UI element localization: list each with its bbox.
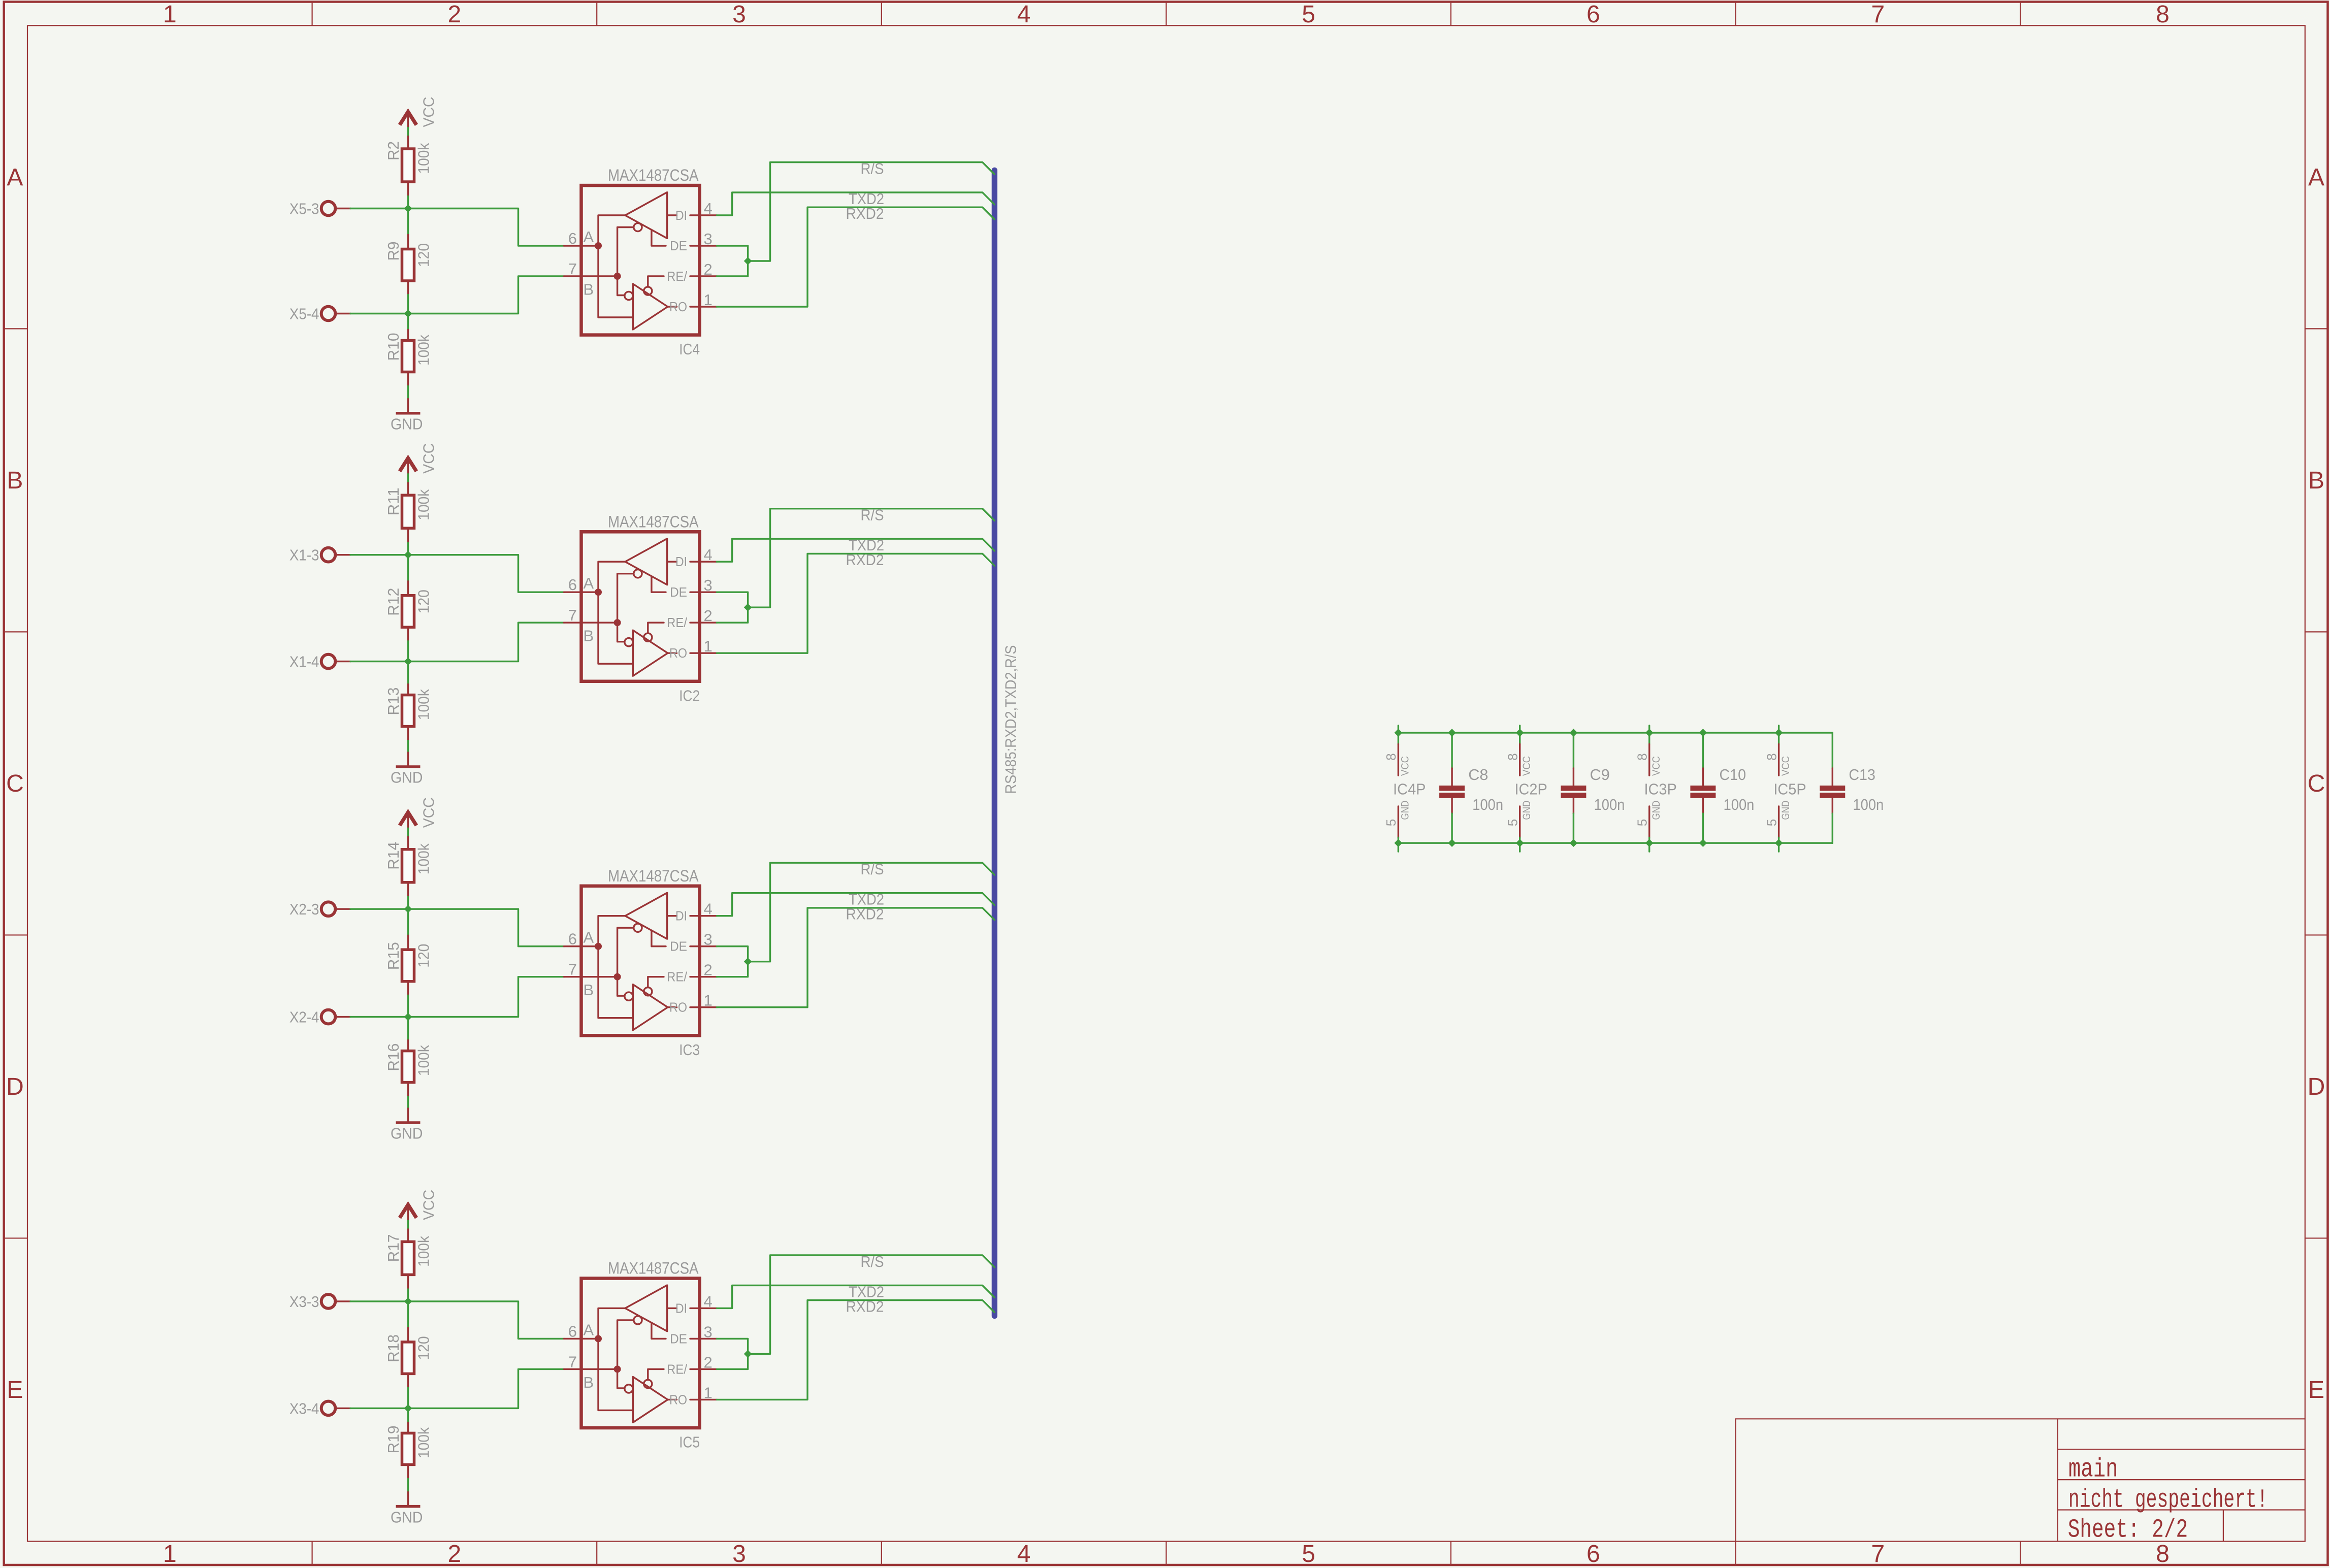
wire DE to R/S junction (717, 946, 748, 962)
wire net A from X1-3 to IC2 pin 6 (408, 555, 564, 593)
svg-text:Sheet: 2/2: Sheet: 2/2 (2068, 1515, 2188, 1545)
svg-text:5: 5 (1764, 819, 1779, 826)
svg-text:GND: GND (1400, 801, 1411, 820)
svg-text:1: 1 (163, 1, 177, 28)
IC2 inverter bubble receiver enable lower (625, 638, 633, 646)
IC3 RO stub (668, 1006, 677, 1008)
svg-text:1: 1 (163, 1541, 177, 1567)
title block divider vertical (2057, 1419, 2058, 1541)
IC5 pin 2 RE/ (667, 1353, 717, 1377)
svg-text:R17: R17 (384, 1234, 402, 1262)
svg-text:RO: RO (669, 299, 687, 314)
svg-text:100k: 100k (414, 1045, 432, 1076)
ground symbol GND below R10 (391, 399, 423, 433)
wire TXD2 from IC2 DI to bus (717, 539, 995, 562)
IC5 pin 1 RO (669, 1384, 717, 1407)
svg-text:R10: R10 (384, 333, 402, 361)
svg-text:VCC: VCC (419, 443, 437, 474)
svg-text:VCC: VCC (1400, 756, 1411, 776)
junction node A at X3-3 (405, 1298, 412, 1305)
IC2 inverter bubble driver enable (634, 570, 642, 578)
svg-text:5: 5 (1302, 1541, 1315, 1567)
svg-text:8: 8 (2156, 1, 2170, 28)
wire RE to R/S junction (717, 607, 748, 623)
wire VCC top rail of capacitor bank (1398, 732, 1832, 733)
svg-text:IC2P: IC2P (1514, 780, 1547, 798)
junction DE-RE at IC3 (745, 958, 752, 965)
IC4 internal junction dot B (614, 273, 621, 280)
svg-text:8: 8 (1383, 753, 1399, 760)
svg-text:R13: R13 (384, 688, 402, 715)
IC3 pin 6 A (564, 929, 598, 948)
svg-text:IC5P: IC5P (1773, 780, 1806, 798)
ground symbol GND below R19 (391, 1492, 423, 1526)
IC3 inverter bubble driver enable (634, 924, 642, 932)
IC5 inverter bubble RE (644, 1380, 652, 1388)
IC4 pin 3 DE (670, 230, 717, 253)
svg-text:X1-4: X1-4 (289, 653, 319, 671)
svg-text:D: D (6, 1073, 24, 1100)
wire net A from X2-3 to IC3 pin 6 (408, 909, 564, 946)
junction DE-RE at IC2 (745, 604, 752, 611)
svg-text:C13: C13 (1849, 766, 1875, 783)
svg-text:3: 3 (704, 931, 713, 949)
svg-text:100n: 100n (1724, 796, 1755, 813)
frame row tick right A/B (2305, 328, 2328, 329)
svg-text:RXD2: RXD2 (846, 551, 884, 569)
svg-text:B: B (7, 467, 23, 494)
svg-text:R14: R14 (384, 842, 402, 870)
junction C8 GND rail (1448, 839, 1455, 846)
svg-text:GND: GND (1651, 801, 1662, 820)
wire RE to R/S junction (717, 1354, 748, 1369)
frame row tick left B/C (4, 631, 27, 632)
svg-text:GND: GND (391, 1125, 423, 1142)
svg-text:R16: R16 (384, 1043, 402, 1071)
svg-text:C10: C10 (1720, 766, 1746, 783)
svg-text:RO: RO (669, 1392, 687, 1407)
svg-text:D: D (2308, 1073, 2325, 1100)
IC3 DE internal wire (652, 930, 666, 946)
IC5 pin 7 B (564, 1353, 618, 1391)
svg-text:DI: DI (675, 208, 687, 223)
svg-text:X3-3: X3-3 (289, 1293, 319, 1311)
frame row tick left C/D (4, 934, 27, 935)
svg-text:R/S: R/S (861, 1253, 884, 1270)
svg-text:B: B (2308, 467, 2324, 494)
svg-text:R/S: R/S (861, 506, 884, 524)
svg-text:B: B (584, 627, 594, 645)
frame column tick bottom 3|4 (881, 1542, 882, 1565)
svg-text:6: 6 (568, 1322, 577, 1340)
capacitor C13 100n (1820, 733, 1884, 843)
IC2 internal enable rail (618, 574, 634, 642)
IC2 RO stub (668, 652, 677, 654)
IC2 internal net rail left (598, 562, 633, 664)
IC2 pin 2 RE/ (667, 607, 717, 630)
wire RE to R/S junction (717, 962, 748, 977)
junction node B at X3-4 (405, 1404, 412, 1412)
wire RE to R/S junction (717, 261, 748, 276)
IC3 pin 2 RE/ (667, 961, 717, 985)
power pins IC3P (1634, 726, 1676, 852)
svg-text:DI: DI (675, 908, 687, 924)
IC5 internal net rail left (598, 1308, 633, 1410)
wire GND bottom rail of capacitor bank (1398, 842, 1832, 843)
wire X2-3 to junction (350, 908, 408, 909)
junction C8 VCC rail (1448, 729, 1455, 736)
svg-text:2: 2 (704, 607, 713, 625)
wire node B to R13 (407, 662, 409, 684)
junction IC2P VCC rail (1516, 729, 1524, 736)
title block row line 2 (2058, 1479, 2305, 1480)
svg-text:3: 3 (732, 1, 746, 28)
svg-text:7: 7 (568, 260, 577, 278)
wire net B from X5-4 to IC4 pin 7 (408, 276, 564, 314)
svg-text:100k: 100k (414, 689, 432, 720)
svg-text:C: C (6, 770, 24, 797)
frame column tick bottom 4|5 (1166, 1542, 1167, 1565)
svg-text:3: 3 (704, 230, 713, 248)
IC5 pin 4 DI (675, 1292, 717, 1316)
capacitor C8 100n (1439, 733, 1503, 843)
wire X1-3 to junction (350, 554, 408, 556)
pin X2-3 (289, 900, 350, 918)
wire RXD2 from IC4 RO to bus (717, 207, 995, 307)
frame column tick top 6|7 (1735, 2, 1736, 26)
svg-text:2: 2 (704, 260, 713, 278)
svg-text:nicht gespeichert!: nicht gespeichert! (2068, 1485, 2268, 1515)
wire R/S from IC2 to bus (748, 509, 995, 607)
wire TXD2 from IC4 DI to bus (717, 192, 995, 215)
IC5 internal junction dot B (614, 1365, 621, 1373)
IC5 RE internal wire (648, 1369, 664, 1380)
svg-text:VCC: VCC (1521, 756, 1533, 776)
title block row line 3 (2058, 1509, 2305, 1510)
svg-text:6: 6 (568, 930, 577, 948)
wire RXD2 from IC2 RO to bus (717, 553, 995, 653)
transceiver IC3 MAX1487CSA box (581, 886, 700, 1036)
svg-text:X2-3: X2-3 (289, 900, 319, 918)
svg-text:MAX1487CSA: MAX1487CSA (608, 166, 699, 184)
wire R2 to node X5-3 (407, 197, 409, 209)
wire TXD2 from IC5 DI to bus (717, 1285, 995, 1308)
svg-text:main: main (2068, 1454, 2118, 1484)
svg-text:GND: GND (1780, 801, 1792, 820)
wire node A to R9 (407, 209, 409, 235)
power symbol VCC above R2 (400, 97, 437, 128)
wire VCC to R14 (407, 828, 409, 837)
svg-text:100n: 100n (1594, 796, 1625, 813)
IC5 driver amplifier triangle (625, 1285, 667, 1331)
junction IC4P VCC rail (1395, 729, 1402, 736)
transceiver IC2 MAX1487CSA box (581, 532, 700, 681)
frame row tick right C/D (2305, 934, 2328, 935)
junction IC4P GND rail (1395, 839, 1402, 846)
wire net B from X2-4 to IC3 pin 7 (408, 977, 564, 1017)
wire DE to R/S junction (717, 246, 748, 261)
wire R13 to GND (407, 741, 409, 753)
svg-text:E: E (7, 1377, 23, 1403)
pin X1-4 (289, 653, 350, 671)
wire node B to R16 (407, 1017, 409, 1040)
IC5 inverter bubble driver enable (634, 1316, 642, 1324)
wire R11 to node X1-3 (407, 543, 409, 555)
svg-text:MAX1487CSA: MAX1487CSA (608, 867, 699, 885)
svg-text:IC5: IC5 (679, 1433, 700, 1451)
svg-text:5: 5 (1302, 1, 1315, 28)
wire DE to R/S junction (717, 592, 748, 607)
wire net B from X3-4 to IC5 pin 7 (408, 1369, 564, 1408)
IC2 DI stub (667, 561, 677, 562)
svg-text:2: 2 (704, 961, 713, 979)
svg-text:A: A (2308, 164, 2324, 191)
power pins IC4P (1383, 726, 1426, 852)
frame column tick top 7|8 (2020, 2, 2021, 26)
IC5 internal junction dot A (595, 1335, 602, 1342)
wire X5-3 to junction (350, 208, 408, 209)
svg-text:GND: GND (391, 415, 423, 433)
svg-text:B: B (584, 981, 594, 999)
svg-text:GND: GND (391, 769, 423, 787)
svg-text:DI: DI (675, 1300, 687, 1316)
svg-text:DE: DE (670, 939, 687, 954)
junction IC2P GND rail (1516, 839, 1524, 846)
transceiver IC5 MAX1487CSA box (581, 1279, 700, 1428)
svg-text:1: 1 (704, 291, 713, 309)
junction node B at X2-4 (405, 1014, 412, 1021)
svg-text:IC4: IC4 (679, 340, 700, 358)
junction IC5P VCC rail (1775, 729, 1783, 736)
svg-text:4: 4 (704, 200, 713, 217)
svg-text:C9: C9 (1590, 766, 1610, 783)
IC4 internal enable rail (618, 227, 634, 296)
IC4 pin 7 B (564, 260, 618, 299)
svg-text:IC3P: IC3P (1644, 780, 1676, 798)
IC2 pin 6 A (564, 574, 598, 594)
svg-text:VCC: VCC (419, 1190, 437, 1220)
IC4 DE internal wire (652, 230, 666, 246)
title block row line 1 (2058, 1449, 2305, 1450)
frame row tick right D/E (2305, 1237, 2328, 1238)
svg-text:RE/: RE/ (667, 969, 688, 985)
svg-text:B: B (584, 1374, 594, 1391)
svg-text:2: 2 (448, 1, 462, 28)
svg-text:7: 7 (1871, 1541, 1885, 1567)
svg-text:X5-4: X5-4 (289, 305, 319, 323)
IC2 RE internal wire (648, 623, 664, 633)
IC3 internal net rail left (598, 916, 633, 1018)
IC4 pin 1 RO (669, 291, 717, 314)
svg-text:RS485:RXD2,TXD2,R/S: RS485:RXD2,TXD2,R/S (1002, 645, 1020, 794)
svg-text:R11: R11 (384, 487, 402, 515)
svg-text:1: 1 (704, 992, 713, 1009)
svg-text:4: 4 (1017, 1541, 1031, 1567)
junction IC3P GND rail (1646, 839, 1653, 846)
svg-text:E: E (2308, 1377, 2324, 1403)
wire DE to R/S junction (717, 1338, 748, 1354)
IC4 pin 6 A (564, 228, 598, 247)
svg-text:4: 4 (704, 1292, 713, 1310)
svg-text:100n: 100n (1472, 796, 1503, 813)
svg-text:MAX1487CSA: MAX1487CSA (608, 1259, 699, 1278)
svg-text:4: 4 (1017, 1, 1031, 28)
IC2 internal junction dot B (614, 619, 621, 626)
junction IC5P GND rail (1775, 839, 1783, 846)
resistor R11 100k (384, 483, 432, 543)
svg-text:8: 8 (1505, 753, 1520, 760)
svg-text:GND: GND (1521, 801, 1533, 820)
frame column tick top 2|3 (596, 2, 597, 26)
svg-text:B: B (584, 281, 594, 299)
svg-text:GND: GND (391, 1508, 423, 1526)
svg-text:RXD2: RXD2 (846, 1297, 884, 1315)
svg-text:7: 7 (1871, 1, 1885, 28)
svg-text:3: 3 (732, 1541, 746, 1567)
IC4 RO stub (668, 306, 677, 307)
IC3 pin 4 DI (675, 900, 717, 924)
svg-text:4: 4 (704, 900, 713, 918)
svg-text:VCC: VCC (1651, 756, 1662, 776)
IC4 driver amplifier triangle (625, 192, 667, 239)
IC4 receiver amplifier triangle (633, 284, 668, 330)
svg-text:C8: C8 (1468, 766, 1488, 783)
resistor R9 120 (384, 235, 432, 295)
svg-text:120: 120 (414, 590, 432, 613)
resistor R15 120 (384, 935, 432, 995)
power symbol VCC above R17 (400, 1190, 437, 1221)
wire R10 to GND (407, 386, 409, 399)
IC3 internal enable rail (618, 928, 634, 996)
wire node B to R10 (407, 314, 409, 330)
IC5 inverter bubble receiver enable lower (625, 1385, 633, 1393)
pin X5-4 (289, 305, 350, 323)
svg-text:RO: RO (669, 1000, 687, 1015)
junction C10 VCC rail (1699, 729, 1706, 736)
wire R19 to GND (407, 1479, 409, 1492)
junction node A at X1-3 (405, 551, 412, 559)
svg-text:7: 7 (568, 1353, 577, 1370)
wire net A from X3-3 to IC5 pin 6 (408, 1301, 564, 1339)
svg-text:VCC: VCC (419, 97, 437, 127)
resistor R2 100k (384, 137, 432, 197)
wire R14 to node X2-3 (407, 897, 409, 909)
wire R/S from IC5 to bus (748, 1255, 995, 1354)
svg-text:7: 7 (568, 961, 577, 978)
junction node A at X5-3 (405, 205, 412, 212)
svg-text:DI: DI (675, 554, 687, 569)
wire R17 to node X3-3 (407, 1289, 409, 1301)
ground symbol GND below R13 (391, 753, 423, 787)
IC5 DE internal wire (652, 1323, 666, 1339)
wire R/S from IC3 to bus (748, 863, 995, 962)
svg-text:RE/: RE/ (667, 615, 688, 630)
wire R16 to GND (407, 1097, 409, 1108)
pin X2-4 (289, 1008, 350, 1026)
IC4 DI stub (667, 214, 677, 216)
svg-text:2: 2 (704, 1353, 713, 1371)
IC4 inverter bubble receiver enable lower (625, 291, 633, 300)
junction IC3P VCC rail (1646, 729, 1653, 736)
resistor R14 100k (384, 837, 432, 897)
svg-text:A: A (584, 574, 594, 592)
IC5 DI stub (667, 1308, 677, 1309)
IC2 driver amplifier triangle (625, 539, 667, 585)
resistor R18 120 (384, 1328, 432, 1388)
IC3 RE internal wire (648, 977, 664, 988)
wire node A to R18 (407, 1301, 409, 1328)
svg-text:8: 8 (1634, 753, 1649, 760)
svg-text:120: 120 (414, 243, 432, 267)
capacitor C10 100n (1690, 733, 1754, 843)
IC2 pin 4 DI (675, 546, 717, 569)
svg-text:1: 1 (704, 1384, 713, 1401)
frame column tick top 1|2 (311, 2, 312, 26)
resistor R10 100k (384, 330, 432, 386)
power symbol VCC above R11 (400, 443, 437, 474)
svg-text:100k: 100k (414, 489, 432, 520)
svg-text:IC4P: IC4P (1393, 780, 1426, 798)
frame column tick bottom 2|3 (596, 1542, 597, 1565)
junction C9 VCC rail (1570, 729, 1577, 736)
resistor R17 100k (384, 1229, 432, 1289)
wire R15 to node B (407, 995, 409, 1017)
svg-text:RO: RO (669, 645, 687, 661)
junction node A at X2-3 (405, 905, 412, 912)
frame row tick right B/C (2305, 631, 2328, 632)
svg-text:5: 5 (1634, 819, 1649, 826)
wire VCC to R11 (407, 474, 409, 483)
junction DE-RE at IC5 (745, 1350, 752, 1357)
wire R12 to node B (407, 641, 409, 662)
svg-text:R9: R9 (384, 242, 402, 261)
frame column tick top 3|4 (881, 2, 882, 26)
IC3 internal junction dot B (614, 973, 621, 981)
svg-text:100k: 100k (414, 1235, 432, 1266)
svg-text:X3-4: X3-4 (289, 1399, 319, 1417)
svg-text:2: 2 (448, 1541, 462, 1567)
IC5 pin 3 DE (670, 1323, 717, 1346)
svg-text:5: 5 (1383, 819, 1399, 826)
svg-text:VCC: VCC (1780, 756, 1792, 776)
wire R18 to node B (407, 1388, 409, 1409)
svg-text:R15: R15 (384, 942, 402, 970)
junction DE-RE at IC4 (745, 257, 752, 265)
IC4 pin 2 RE/ (667, 260, 717, 284)
resistor R13 100k (384, 684, 432, 741)
svg-text:100n: 100n (1853, 796, 1884, 813)
svg-text:5: 5 (1505, 819, 1520, 826)
wire X5-4 to junction (350, 313, 408, 314)
wire VCC to R17 (407, 1221, 409, 1229)
power symbol VCC above R14 (400, 797, 437, 828)
power pins IC5P (1764, 726, 1806, 852)
IC4 internal net rail left (598, 215, 633, 317)
IC2 receiver amplifier triangle (633, 630, 668, 676)
junction node B at X5-4 (405, 310, 412, 317)
title block outline (1736, 1419, 2305, 1541)
wire RXD2 from IC3 RO to bus (717, 908, 995, 1007)
IC5 RO stub (668, 1399, 677, 1400)
IC3 DI stub (667, 915, 677, 917)
resistor R19 100k (384, 1422, 432, 1479)
svg-text:R18: R18 (384, 1334, 402, 1362)
svg-text:RXD2: RXD2 (846, 905, 884, 923)
IC2 DE internal wire (652, 576, 666, 593)
svg-text:X5-3: X5-3 (289, 200, 319, 218)
svg-text:R/S: R/S (861, 860, 884, 878)
svg-text:120: 120 (414, 944, 432, 968)
